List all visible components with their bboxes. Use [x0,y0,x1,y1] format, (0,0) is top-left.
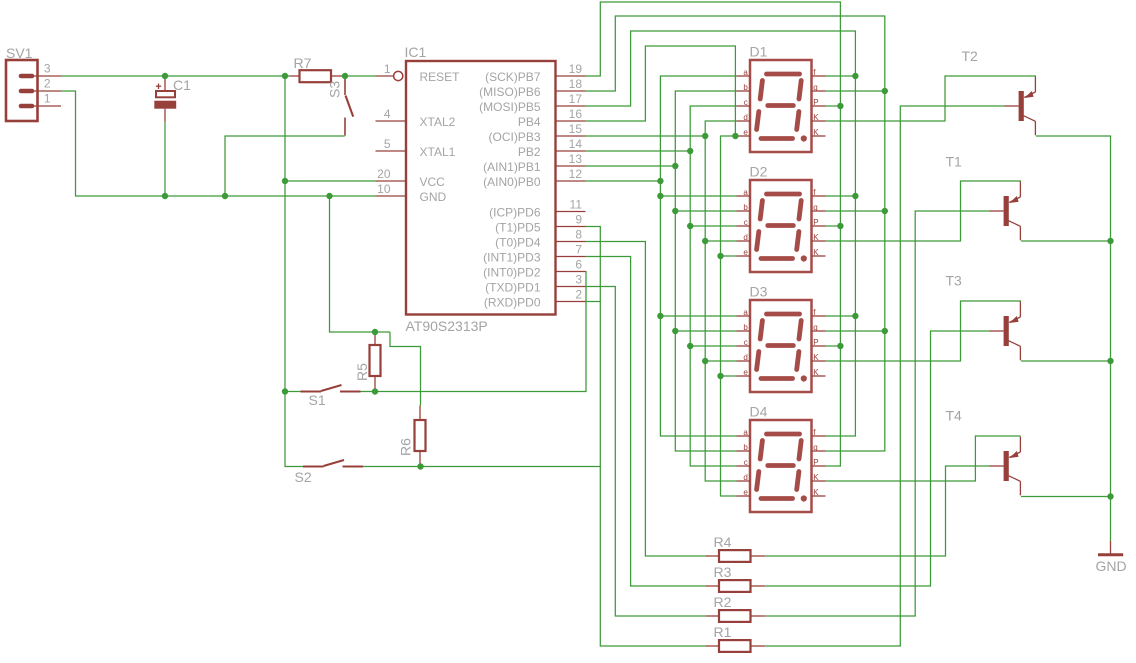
IC1 pin 5 XTAL1 [376,137,456,159]
svg-text:13: 13 [569,152,583,166]
connector SV1 [6,45,61,121]
svg-text:e: e [743,368,748,377]
7-segment display D3 [737,284,826,393]
wire R3 to T3 base [765,331,989,586]
svg-text:g: g [813,443,817,452]
svg-text:(SCK)PB7: (SCK)PB7 [485,70,541,84]
svg-text:(TXD)PD1: (TXD)PD1 [485,281,541,295]
wire net PD4 to R4 [586,242,707,557]
svg-text:c: c [744,218,748,227]
resistor R7 [290,55,345,82]
wire D2 K to T1 emitter [826,181,1022,241]
7-segment display D4 [737,404,826,513]
svg-text:6: 6 [575,258,582,272]
switch S3 [327,78,354,136]
resistor R5 [354,332,381,392]
ground GND [1096,541,1127,574]
svg-text:(AIN0)PB0: (AIN0)PB0 [483,175,541,189]
wire net PB5 seg f [586,31,859,436]
svg-text:d: d [743,353,747,362]
wire R4 to T4 base [765,466,989,556]
svg-text:12: 12 [569,167,583,181]
svg-text:e: e [743,248,748,257]
wire GND rail to R5 R6 [330,196,421,406]
svg-text:1: 1 [44,92,51,106]
wire net PB0 seg a [586,76,737,436]
IC1 pin 9 (T1)PD5 [495,213,585,235]
svg-text:S2: S2 [295,469,312,485]
svg-text:SV1: SV1 [6,45,33,61]
svg-text:(MOSI)PB5: (MOSI)PB5 [479,100,541,114]
svg-text:R5: R5 [354,363,370,381]
svg-text:c: c [744,98,748,107]
wire net PB1 seg b [586,91,737,451]
svg-text:PB4: PB4 [518,115,541,129]
wire T1 collector [1021,240,1111,242]
svg-text:K: K [813,368,819,377]
IC1 pin 14 PB2 [518,137,586,159]
wire C1 minus to GND rail [164,122,166,197]
IC1 pin 20 VCC [376,167,446,189]
svg-text:9: 9 [575,213,582,227]
wire T4 collector [1021,496,1111,498]
svg-text:P: P [813,458,818,467]
svg-text:S3: S3 [327,81,343,98]
wire net PD3 to R3 [586,257,707,587]
svg-text:P: P [813,218,818,227]
wire D1 K to T2 emitter [826,76,1037,121]
svg-text:T1: T1 [946,154,963,170]
svg-text:b: b [743,443,748,452]
svg-text:K: K [813,488,819,497]
resistor R4 [706,534,765,562]
svg-text:19: 19 [569,62,583,76]
transistor T3 PNP [946,273,1021,361]
svg-text:P: P [813,338,818,347]
svg-text:IC1: IC1 [405,44,427,60]
7-segment display D2 [737,164,826,273]
svg-text:K: K [813,248,819,257]
svg-text:e: e [743,488,748,497]
wire R1 to T2 base [765,106,1004,646]
wire net PD2 S1 R5 [285,272,586,395]
svg-text:16: 16 [569,107,583,121]
IC1 pin 6 (INT0)PD2 [483,258,585,280]
svg-text:2: 2 [575,288,582,302]
IC1 pin 12 (AIN0)PB0 [483,167,585,189]
svg-text:C1: C1 [173,77,191,93]
svg-text:4: 4 [384,107,391,121]
svg-text:AT90S2313P: AT90S2313P [406,318,488,334]
IC1 pin 13 (AIN1)PB1 [483,152,585,174]
svg-text:7: 7 [575,243,582,257]
svg-text:10: 10 [377,182,391,196]
wire net GND rail from SV1 pin2 [61,91,376,199]
svg-text:11: 11 [570,198,583,212]
IC1 pin 8 (T0)PD4 [495,228,585,250]
svg-text:T2: T2 [962,48,979,64]
transistor T2 PNP [962,48,1036,135]
wire T2 collector to GND rail [1036,136,1114,541]
svg-text:(RXD)PD0: (RXD)PD0 [484,296,541,310]
svg-text:VCC: VCC [420,175,446,189]
svg-text:K: K [813,233,819,242]
wire net PB4 seg e [586,46,739,496]
svg-text:T3: T3 [946,273,963,289]
svg-text:3: 3 [575,273,582,287]
transistor T1 PNP [946,154,1021,241]
wire T3 collector [1021,360,1111,362]
svg-text:R3: R3 [714,564,732,580]
transistor T4 PNP [946,408,1021,496]
svg-text:18: 18 [569,77,583,91]
svg-text:20: 20 [377,167,391,181]
wire net PD5 PD0 S2 to R1 [586,227,707,647]
IC1 pin 2 (RXD)PD0 [484,288,586,310]
svg-text:R7: R7 [294,55,312,71]
wire D4 K to T4 emitter [826,436,1021,481]
wire net RESET [342,73,376,79]
svg-text:(INT0)PD2: (INT0)PD2 [483,266,541,280]
svg-text:K: K [813,113,819,122]
svg-text:R6: R6 [398,438,414,456]
svg-text:c: c [744,338,748,347]
wire net S2 row [363,463,600,469]
svg-text:15: 15 [569,122,583,136]
svg-text:d: d [743,113,747,122]
svg-text:K: K [813,353,819,362]
IC1 pin 16 PB4 [518,107,586,129]
svg-text:(OCI)PB3: (OCI)PB3 [488,130,540,144]
7-segment display D1 [737,44,826,153]
wire net VCC riser to switches [282,76,303,467]
svg-text:R1: R1 [714,624,732,640]
svg-text:D2: D2 [750,164,768,180]
svg-text:g: g [813,203,817,212]
wire net PB2 seg c [586,106,737,466]
wire R2 to T1 base [765,211,989,616]
svg-text:(T1)PD5: (T1)PD5 [495,221,541,235]
switch S2 [295,460,364,485]
svg-text:d: d [743,233,747,242]
resistor R3 [706,564,765,592]
svg-text:(MISO)PB6: (MISO)PB6 [479,85,541,99]
wire net VCC to IC pin 20 [285,180,376,182]
svg-text:a: a [743,188,748,197]
svg-text:(INT1)PD3: (INT1)PD3 [483,251,541,265]
wire D3 K to T3 emitter [826,301,1022,361]
svg-text:2: 2 [44,77,51,91]
svg-text:17: 17 [569,92,583,106]
IC1 pin 18 (MISO)PB6 [479,77,585,99]
IC1 pin 1 RESET [376,62,461,84]
IC1 pin 15 (OCI)PB3 [488,122,585,144]
wire S3 to GND rail [225,136,345,196]
IC1 pin 11 (ICP)PD6 [489,198,585,220]
svg-text:GND: GND [420,190,447,204]
svg-text:PB2: PB2 [518,145,541,159]
op-amp U1 IC1 AT90S2313P box [405,44,556,334]
svg-text:P: P [813,98,818,107]
svg-text:5: 5 [384,137,391,151]
IC1 pin 7 (INT1)PD3 [483,243,585,265]
svg-text:3: 3 [44,62,51,76]
resistor R1 [706,624,765,652]
svg-text:e: e [743,128,748,137]
svg-text:14: 14 [569,137,583,151]
svg-text:S1: S1 [309,392,326,408]
svg-text:8: 8 [575,228,582,242]
resistor R6 [398,406,426,467]
svg-text:1: 1 [384,62,391,76]
svg-text:(AIN1)PB1: (AIN1)PB1 [483,160,541,174]
svg-text:a: a [743,428,748,437]
svg-text:K: K [813,128,819,137]
svg-text:D3: D3 [750,284,768,300]
IC1 pin 10 GND [376,182,447,204]
svg-text:g: g [813,83,817,92]
svg-text:d: d [743,473,747,482]
wire net PB3 seg d [586,121,737,481]
IC1 pin 19 (SCK)PB7 [485,62,585,84]
IC1 pin 4 XTAL2 [376,107,456,129]
svg-text:D1: D1 [750,44,768,60]
svg-text:T4: T4 [946,408,963,424]
wire net PB6 seg g [586,16,889,451]
svg-text:R2: R2 [714,594,732,610]
wire net VCC top rail [61,73,290,79]
svg-text:(T0)PD4: (T0)PD4 [495,236,541,250]
IC1 pin 3 (TXD)PD1 [485,273,585,295]
svg-text:b: b [743,203,748,212]
svg-text:a: a [743,68,748,77]
svg-text:XTAL1: XTAL1 [420,145,456,159]
wire net PB7 dp [586,2,844,466]
wire net PD1 to R2 [586,287,707,617]
svg-text:XTAL2: XTAL2 [420,115,456,129]
svg-text:K: K [813,473,819,482]
svg-text:g: g [813,323,817,332]
svg-text:c: c [744,458,748,467]
svg-text:b: b [743,83,748,92]
svg-text:R4: R4 [714,534,732,550]
svg-text:b: b [743,323,748,332]
switch S1 [301,385,361,408]
capacitor C1 [154,77,191,122]
svg-text:a: a [743,308,748,317]
IC1 pin 17 (MOSI)PB5 [479,92,585,114]
svg-text:RESET: RESET [420,70,461,84]
resistor R2 [706,594,765,622]
svg-text:GND: GND [1096,558,1127,574]
svg-text:(ICP)PD6: (ICP)PD6 [489,206,541,220]
svg-text:D4: D4 [750,404,768,420]
